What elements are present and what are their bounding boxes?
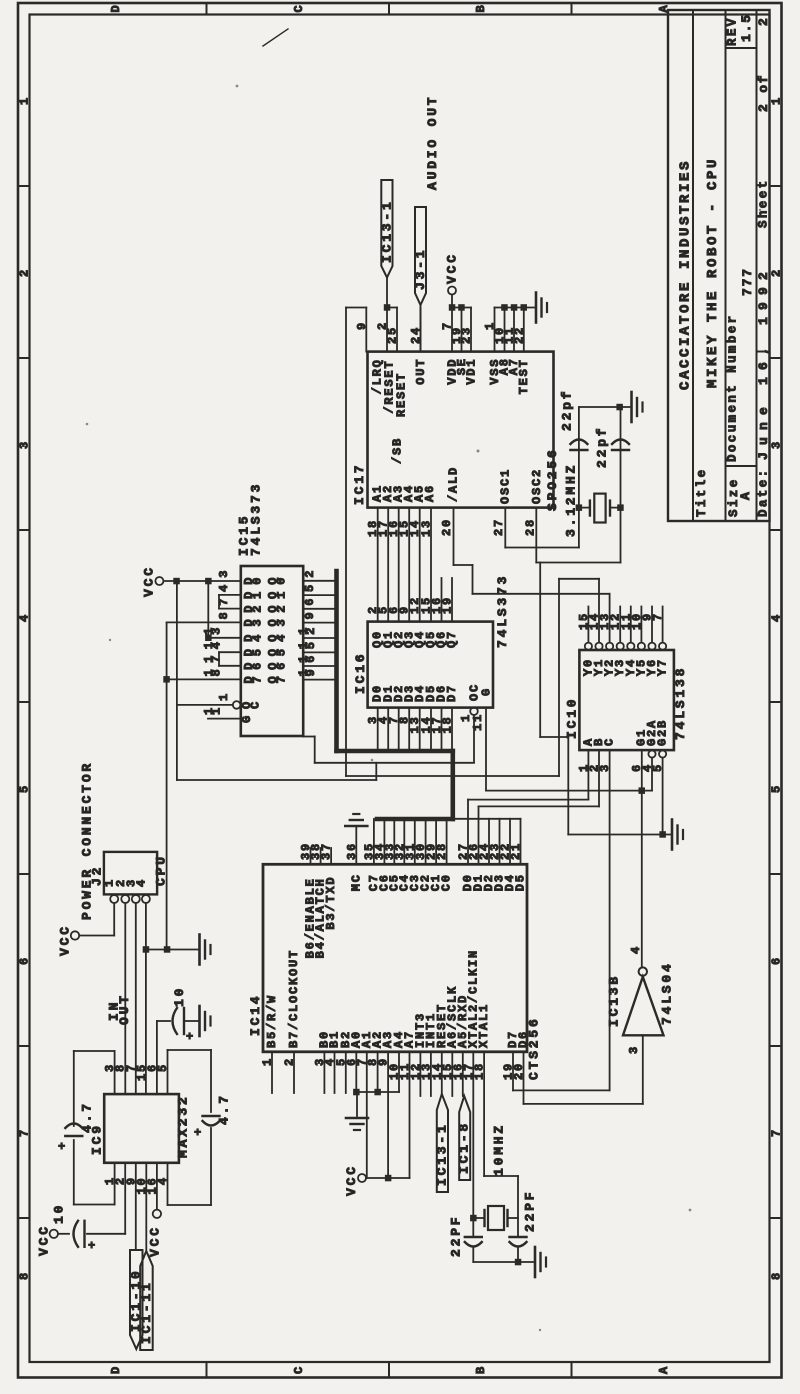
svg-text:74LS373: 74LS373 xyxy=(249,482,264,556)
svg-text:3.12MHZ: 3.12MHZ xyxy=(564,463,579,537)
wire crystal left leg xyxy=(578,407,580,548)
svg-text:OUT: OUT xyxy=(414,358,428,385)
flag IC1-8 xyxy=(459,1096,470,1180)
svg-text:4: 4 xyxy=(18,615,32,622)
wires IC17 A1-A6 to IC16 Q0-Q5 xyxy=(377,508,379,622)
svg-text:AUDIO OUT: AUDIO OUT xyxy=(425,95,440,190)
svg-text:OUT: OUT xyxy=(117,993,132,1025)
wire XTAL1 xyxy=(483,1052,485,1176)
IC16 D wires to data bus xyxy=(377,708,379,749)
svg-text:/ALD: /ALD xyxy=(447,466,461,502)
border zone ticks left/right xyxy=(18,185,30,187)
wire OSC2 pin28 xyxy=(535,508,537,563)
svg-text:IC1-8: IC1-8 xyxy=(457,1121,472,1174)
svg-text:D7: D7 xyxy=(445,684,459,702)
svg-text:VCC: VCC xyxy=(445,252,460,284)
ground at J2 xyxy=(198,935,201,965)
wire ground rail 10MHZ xyxy=(473,1261,533,1263)
pin G2A bubble xyxy=(648,750,655,757)
svg-text:2: 2 xyxy=(304,626,318,635)
svg-text:6: 6 xyxy=(770,958,784,965)
svg-text:Title: Title xyxy=(695,467,709,517)
ground at IC17 VSS xyxy=(535,293,538,323)
svg-text:1: 1 xyxy=(18,98,32,105)
svg-text:C: C xyxy=(249,700,263,709)
IC16 OC pin wire xyxy=(470,707,478,715)
svg-text:10MHZ: 10MHZ xyxy=(492,1123,507,1176)
svg-text:2: 2 xyxy=(275,604,289,613)
IC17 top pin wires xyxy=(365,308,367,352)
svg-text:1: 1 xyxy=(217,692,231,701)
wire IC9 pin2 to VCC cap 10 xyxy=(124,1163,126,1234)
svg-text:POWER CONNECTOR: POWER CONNECTOR xyxy=(80,761,95,920)
svg-text:2: 2 xyxy=(770,270,784,277)
svg-text:3: 3 xyxy=(217,569,231,578)
svg-text:MAX232: MAX232 xyxy=(176,1094,191,1158)
wire XTAL2/CLKIN xyxy=(472,1052,474,1237)
VCC bubble at IC9 pin16 xyxy=(153,1210,161,1218)
wire IC15 OC net down xyxy=(176,581,178,780)
svg-text:SPO256: SPO256 xyxy=(545,447,560,511)
wire G enables net xyxy=(641,750,643,967)
svg-text:IC13B: IC13B xyxy=(607,974,622,1027)
pin Y0 bubble IC10 xyxy=(585,643,592,650)
svg-text:IC1-11: IC1-11 xyxy=(139,1280,154,1344)
pin 2 circle J2 xyxy=(121,895,129,903)
wire D4 xyxy=(208,637,241,639)
bus thick horizontal to IC14 C port xyxy=(377,817,453,822)
wire IC10 C select from IC14 D7 xyxy=(609,750,611,1090)
svg-text:0: 0 xyxy=(275,576,289,585)
wire Y2 to /ALD net xyxy=(609,594,611,643)
wires D0,D1 to IC10 A,B xyxy=(467,800,469,865)
wire VCC branch to D4 xyxy=(207,581,209,638)
svg-text:5: 5 xyxy=(303,583,317,592)
svg-text:3: 3 xyxy=(627,1045,641,1054)
wire A5/RXD to flag xyxy=(462,1052,464,1096)
wire jog vertical xyxy=(375,763,377,780)
scan speckles xyxy=(86,85,762,1332)
svg-text:7: 7 xyxy=(770,1130,784,1137)
svg-text:+: + xyxy=(58,1140,67,1154)
svg-text:8: 8 xyxy=(770,1273,784,1280)
svg-text:A: A xyxy=(657,1366,671,1374)
svg-text:2: 2 xyxy=(18,270,32,277)
svg-text:74LS04: 74LS04 xyxy=(660,961,675,1025)
svg-text:G2B: G2B xyxy=(656,719,670,746)
svg-text:RESET: RESET xyxy=(395,372,409,417)
svg-text:VCC: VCC xyxy=(344,1164,359,1196)
wire IC9 pin10 to flag xyxy=(145,1163,147,1251)
svg-text:8: 8 xyxy=(217,610,231,619)
svg-text:D: D xyxy=(109,1367,123,1374)
pin G2B bubble xyxy=(659,750,666,757)
svg-text:4: 4 xyxy=(275,633,289,642)
svg-text:4: 4 xyxy=(217,583,231,592)
wire VCC to D0 xyxy=(163,580,240,582)
capacitor 10 bottom (polarized) xyxy=(74,1221,79,1247)
wire G2B to ground xyxy=(662,758,664,835)
svg-text:1: 1 xyxy=(770,98,784,105)
svg-text:2: 2 xyxy=(303,569,317,578)
IC15 G pin stub xyxy=(208,718,241,720)
border zone ticks top/bottom xyxy=(206,3,208,15)
svg-text:74LS138: 74LS138 xyxy=(673,666,688,740)
wire IC9 pin5 loop to pin4 with cap 4.7 xyxy=(167,1050,169,1094)
wire J2 pin2 to IC9 pin8 (IN) xyxy=(124,903,126,1094)
IC16 Q6 Q7 stub wires xyxy=(441,578,443,622)
svg-text:+: + xyxy=(88,1239,97,1253)
svg-text:XTAL1: XTAL1 xyxy=(477,1003,491,1048)
svg-text:7: 7 xyxy=(210,654,224,663)
svg-text:June 16, 1992: June 16, 1992 xyxy=(756,265,771,460)
svg-text:IC17: IC17 xyxy=(352,463,367,505)
svg-text:6: 6 xyxy=(275,661,289,670)
op IC17 SPO256 speech chip xyxy=(368,352,554,508)
svg-text:MC: MC xyxy=(349,873,363,891)
svg-text:3: 3 xyxy=(251,617,265,626)
svg-text:REV: REV xyxy=(726,16,740,46)
wire J2 pin3 to IC9 pin7 (OUT) xyxy=(135,903,137,1094)
title block row line 1 xyxy=(692,10,694,521)
VCC bubble at IC14 xyxy=(358,1174,366,1182)
flag IC13-1 (top) xyxy=(381,180,392,278)
latch IC16 74LS373 xyxy=(368,622,493,708)
svg-text:J3-1: J3-1 xyxy=(413,248,428,290)
svg-text:MIKEY THE ROBOT - CPU: MIKEY THE ROBOT - CPU xyxy=(705,157,721,388)
svg-text:G: G xyxy=(240,714,254,723)
svg-text:27: 27 xyxy=(492,518,506,536)
svg-text:IC13-1: IC13-1 xyxy=(435,1122,450,1186)
svg-text:22pf: 22pf xyxy=(595,426,610,468)
svg-text:Y7: Y7 xyxy=(656,658,670,676)
bus thick horizontal under IC16 xyxy=(337,749,453,754)
svg-text:OSC1: OSC1 xyxy=(499,468,513,504)
svg-text:7: 7 xyxy=(18,1130,32,1137)
title block size cell divider xyxy=(726,465,757,467)
svg-text:C: C xyxy=(292,1367,306,1374)
title block row line 2 xyxy=(725,10,727,521)
svg-text:1: 1 xyxy=(251,590,265,599)
svg-text:2 of: 2 of xyxy=(756,74,771,112)
pin Y6 bubble IC10 xyxy=(648,643,655,650)
wires C0-C7 to bus xyxy=(373,819,375,864)
svg-text:10: 10 xyxy=(52,1203,67,1224)
svg-text:6: 6 xyxy=(303,597,317,606)
svg-text:D5: D5 xyxy=(514,873,528,891)
pin Y2 bubble IC10 xyxy=(606,643,613,650)
capacitor 4.7 left xyxy=(65,1124,82,1129)
wire D2 xyxy=(219,608,241,610)
svg-text:/SB: /SB xyxy=(391,437,405,464)
capacitor 10 (polarized) xyxy=(173,1008,178,1034)
cpu IC14 CTS256 xyxy=(263,864,527,1052)
wire D5 xyxy=(219,651,241,653)
svg-text:IC14: IC14 xyxy=(248,994,263,1036)
wire D5-D6 jog xyxy=(218,652,220,666)
svg-text:B: B xyxy=(474,1367,488,1374)
svg-text:0: 0 xyxy=(251,576,265,585)
svg-text:3: 3 xyxy=(210,626,224,635)
svg-text:VD1: VD1 xyxy=(465,358,479,385)
svg-text:4: 4 xyxy=(134,878,148,887)
svg-text:+: + xyxy=(194,1126,203,1140)
wire D6 xyxy=(219,665,241,667)
svg-text:22PF: 22PF xyxy=(449,1215,464,1257)
svg-text:C: C xyxy=(292,5,306,12)
svg-text:CACCIATORE INDUSTRIES: CACCIATORE INDUSTRIES xyxy=(678,159,694,390)
svg-text:4: 4 xyxy=(210,640,224,649)
svg-text:G: G xyxy=(480,687,494,696)
pin Y3 bubble IC10 xyxy=(617,643,624,650)
pin Y4 bubble IC10 xyxy=(627,643,634,650)
svg-text:OSC2: OSC2 xyxy=(530,468,544,504)
title block outline xyxy=(668,10,770,521)
IC14 pins 1-5 stub wires xyxy=(271,1052,273,1093)
wire caps to ground xyxy=(579,406,630,408)
wire pin24 xyxy=(420,305,422,352)
svg-text:74LS373: 74LS373 xyxy=(495,574,510,648)
svg-text:B5/R/W: B5/R/W xyxy=(265,994,279,1048)
wire OSC1 pin27 xyxy=(504,508,506,548)
ground at 3.12MHZ caps xyxy=(630,392,633,422)
wire A0/A2/A4 to ground xyxy=(355,1052,357,1092)
stray scan mark xyxy=(263,29,288,46)
inverter IC13B 74LS04 xyxy=(623,977,664,1036)
svg-text:4: 4 xyxy=(251,633,265,642)
svg-text:9: 9 xyxy=(304,667,318,676)
svg-text:8: 8 xyxy=(18,1273,32,1280)
crystal Y2 3.12MHZ xyxy=(579,507,590,509)
svg-text:20: 20 xyxy=(440,518,454,536)
wire IC15 corner jog to IC16 OC line xyxy=(303,736,315,738)
svg-text:777: 777 xyxy=(740,267,755,296)
bus thick vertical right xyxy=(450,751,455,819)
wire crystal right leg xyxy=(620,407,622,563)
wire RESET to flag xyxy=(441,1052,443,1094)
IC15 Q wires to bus xyxy=(303,580,336,582)
IC14 B-port stub wires xyxy=(310,848,312,864)
svg-text:IC13-1: IC13-1 xyxy=(380,199,395,263)
svg-text:/RESET: /RESET xyxy=(383,360,397,414)
svg-text:A: A xyxy=(738,490,753,500)
IC16 G pin wire xyxy=(485,708,487,791)
crystal Y1 10MHZ xyxy=(473,1217,484,1219)
svg-text:20: 20 xyxy=(512,1062,526,1080)
inverter output bubble xyxy=(639,967,647,975)
latch IC15 74LS373 xyxy=(241,566,303,736)
svg-text:B3/TXD: B3/TXD xyxy=(324,876,338,930)
title block date/sheet divider xyxy=(757,351,770,353)
ground at 10MHZ caps xyxy=(534,1247,537,1277)
svg-text:4: 4 xyxy=(629,945,643,954)
wire IC10 A select xyxy=(587,750,589,800)
svg-text:6: 6 xyxy=(304,654,318,663)
capacitor 22PF left xyxy=(465,1236,482,1238)
svg-text:2: 2 xyxy=(251,604,265,613)
ground at IC10 G2B xyxy=(671,820,674,850)
svg-text:VCC: VCC xyxy=(37,1224,52,1256)
title block row line 3 xyxy=(756,10,758,521)
capacitor 22pf right xyxy=(612,440,629,445)
capacitor 22pf left (C near OSC1) xyxy=(570,440,587,445)
wire J2 pin4 ground net xyxy=(145,903,147,1094)
capacitor 22PF right xyxy=(510,1236,527,1238)
svg-text:22pf: 22pf xyxy=(560,389,575,431)
svg-text:C0: C0 xyxy=(440,873,454,891)
svg-text:IC16: IC16 xyxy=(353,652,368,694)
svg-text:2: 2 xyxy=(756,16,771,26)
wire MC to ground xyxy=(355,826,357,864)
VCC bubble IC17 xyxy=(448,287,456,295)
svg-text:A6: A6 xyxy=(423,484,437,502)
svg-text:3: 3 xyxy=(770,442,784,449)
svg-text:D6: D6 xyxy=(517,1030,531,1048)
svg-text:5: 5 xyxy=(251,647,265,656)
capacitor 4.7 right xyxy=(203,1115,220,1117)
pin Y7 bubble IC10 xyxy=(659,643,666,650)
svg-text:4.7: 4.7 xyxy=(80,1101,95,1133)
wire IC10 B select xyxy=(598,750,600,806)
flag IC1-10 xyxy=(130,1250,143,1349)
svg-text:7: 7 xyxy=(251,674,265,683)
wire IC9 pin16 to VCC xyxy=(156,1163,158,1210)
wire /ALD staircase xyxy=(453,508,455,565)
svg-text:3: 3 xyxy=(18,442,32,449)
svg-text:TEST: TEST xyxy=(517,358,531,394)
ground at IC14 A0 xyxy=(346,1117,368,1120)
wire pins 7/19/23 to VCC xyxy=(452,307,471,309)
power VCC at J2 xyxy=(71,931,79,939)
wire IC9 pin9 to flag xyxy=(135,1163,137,1250)
driver IC9 MAX232 xyxy=(104,1094,179,1163)
pin Y1 bubble IC10 xyxy=(595,643,602,650)
svg-text:VCC: VCC xyxy=(142,565,157,597)
svg-text:+: + xyxy=(186,1030,195,1044)
IC14 INT stubs xyxy=(419,1052,421,1096)
svg-text:IC10: IC10 xyxy=(565,697,580,739)
flag J3-1 xyxy=(415,207,426,305)
svg-text:3: 3 xyxy=(275,617,289,626)
svg-text:5: 5 xyxy=(770,786,784,793)
flag IC1-11 xyxy=(140,1251,153,1350)
IC15 OC pin bubble+wire xyxy=(233,701,241,709)
wire IC9 pin3 loop to pin1 with cap 4.7 xyxy=(114,1051,116,1094)
IC10 Y stub wires xyxy=(587,607,589,643)
wires D2-D5 xyxy=(454,818,521,820)
net CPU : IC15 D3,D7 to J2 xyxy=(167,621,241,623)
svg-text:B: B xyxy=(474,5,488,12)
bus thick vertical at IC15 Q outputs xyxy=(334,571,339,751)
ground at MC (pointing up) xyxy=(345,825,367,828)
svg-text:Date:: Date: xyxy=(757,467,771,517)
wire Y1 to /ALD net xyxy=(598,579,600,643)
svg-text:Q7: Q7 xyxy=(445,630,459,648)
svg-text:1: 1 xyxy=(275,590,289,599)
decoder IC10 74LS138 xyxy=(579,650,674,750)
flag IC13-1 (at IC14 RESET) xyxy=(437,1094,448,1192)
svg-text:VCC: VCC xyxy=(148,1225,163,1257)
svg-text:5: 5 xyxy=(18,786,32,793)
svg-text:1: 1 xyxy=(210,706,224,715)
svg-text:5: 5 xyxy=(304,640,318,649)
wire D1-D2 jog xyxy=(218,595,220,609)
svg-text:9: 9 xyxy=(303,610,317,619)
svg-text:10: 10 xyxy=(172,986,187,1007)
svg-text:8: 8 xyxy=(210,667,224,676)
wire D1 xyxy=(219,594,241,596)
wire pins2/25 join xyxy=(387,307,397,309)
power VCC at IC15 xyxy=(155,577,163,585)
ground at IC9 pin6 xyxy=(198,1006,201,1036)
svg-text:6: 6 xyxy=(18,958,32,965)
svg-text:D: D xyxy=(109,5,123,12)
svg-text:7: 7 xyxy=(275,674,289,683)
title block REV box line xyxy=(726,47,757,49)
pin Y5 bubble IC10 xyxy=(638,643,645,650)
pin 4 circle J2 xyxy=(142,895,150,903)
wire /LRQ long net xyxy=(346,307,366,309)
svg-text:Document Number: Document Number xyxy=(726,313,740,462)
wire IC9 pin6 cap 10 to ground xyxy=(156,1021,158,1094)
wire pins 1/10/11/22 to ground xyxy=(495,307,535,309)
svg-text:4.7: 4.7 xyxy=(217,1093,232,1125)
svg-text:B7/CLOCKOUT: B7/CLOCKOUT xyxy=(287,949,301,1048)
svg-text:6: 6 xyxy=(251,661,265,670)
svg-text:CPU: CPU xyxy=(154,854,169,886)
svg-text:Sheet: Sheet xyxy=(757,178,771,228)
pin 3 circle J2 xyxy=(132,895,140,903)
wire A1/A3/A7 to VCC xyxy=(366,1052,368,1178)
svg-text:C: C xyxy=(603,737,617,746)
svg-text:4: 4 xyxy=(770,615,784,622)
svg-text:VCC: VCC xyxy=(58,924,73,956)
pin 1 circle J2 xyxy=(110,895,118,903)
power VCC bottom left xyxy=(50,1230,58,1238)
wire VCC to J2 pin1 xyxy=(80,935,115,937)
svg-text:5: 5 xyxy=(275,647,289,656)
connector J2 POWER CONNECTOR xyxy=(104,852,157,895)
svg-text:22PF: 22PF xyxy=(523,1190,538,1232)
svg-text:1.5: 1.5 xyxy=(739,13,754,42)
wire IC13B input xyxy=(642,1035,644,1104)
